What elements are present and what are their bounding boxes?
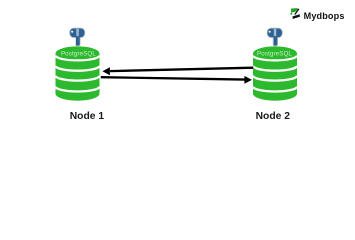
database cylinder Node 2 xyxy=(253,46,297,100)
PostgreSQL elephant logo (Node 2) xyxy=(267,28,283,46)
PostgreSQL elephant logo (Node 1) xyxy=(69,28,85,46)
svg-text:PostgreSQL: PostgreSQL xyxy=(61,50,96,57)
Mydbops logo icon xyxy=(291,8,300,19)
database cylinder Node 1 xyxy=(56,46,100,100)
arrow top (right to left) xyxy=(102,67,253,75)
svg-text:PostgreSQL: PostgreSQL xyxy=(257,50,292,57)
svg-text:Mydbops: Mydbops xyxy=(304,11,345,21)
svg-text:Node 2: Node 2 xyxy=(256,111,291,122)
svg-text:Node 1: Node 1 xyxy=(70,111,105,122)
arrow bottom (left to right) xyxy=(101,76,252,84)
